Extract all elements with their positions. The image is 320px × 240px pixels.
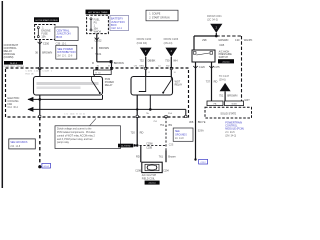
wire relay A common to bus H1 xyxy=(102,95,104,99)
svg-text:C2S: C2S xyxy=(169,144,174,146)
svg-text:GROUNDS: GROUNDS xyxy=(175,134,187,136)
fuse F2 FUEL PUMP 30A (Battery Junction Box, dashed) xyxy=(87,15,109,33)
CCRM module box (dashed) xyxy=(6,68,189,117)
A/C clutch field coil label xyxy=(142,174,157,180)
svg-text:2M 12-1 12-8: 2M 12-1 12-8 xyxy=(57,56,73,58)
ground ref box G104 (blue) xyxy=(42,163,51,168)
svg-text:DB/BK: DB/BK xyxy=(148,59,156,63)
svg-text:214 14-8: 214 14-8 xyxy=(10,146,20,148)
A/C high pressure switch label xyxy=(219,50,233,59)
svg-text:G104: G104 xyxy=(44,166,50,168)
svg-text:C25B: C25B xyxy=(146,148,152,150)
electric cooling fan label xyxy=(8,97,20,109)
from C206 label xyxy=(164,37,179,45)
black ref bar (bottom branch) xyxy=(118,144,133,148)
CCRM top edge pin labels xyxy=(97,66,170,68)
svg-text:BROWN: BROWN xyxy=(42,50,52,54)
wire switch right leg 737 RD (to PCM) xyxy=(206,62,221,101)
svg-text:BROWN: BROWN xyxy=(114,61,124,65)
svg-text:RD: RD xyxy=(166,66,170,68)
svg-text:368: 368 xyxy=(189,120,194,124)
svg-text:FROM C001: FROM C001 xyxy=(207,14,222,18)
svg-text:298: 298 xyxy=(202,38,207,42)
svg-text:GRY: GRY xyxy=(244,98,250,102)
wire fuse2 into pin block xyxy=(96,68,98,70)
svg-text:GRN/RD: GRN/RD xyxy=(218,38,228,42)
relay B body (WAC relay) xyxy=(131,77,173,96)
wire 36 BROWN (fuse F1 to CCRM) xyxy=(35,40,52,69)
wire (dashed) CCRM to ground splice xyxy=(38,117,41,168)
CCRM top edge pin squares xyxy=(39,67,173,69)
svg-text:12-7 B RD: 12-7 B RD xyxy=(121,146,131,148)
svg-text:C 1070 C 1041 C 1049 1: C 1070 C 1041 C 1049 1 xyxy=(25,71,52,73)
svg-text:SEE GROUNDS: SEE GROUNDS xyxy=(10,142,27,144)
from C001 label xyxy=(207,14,222,22)
powertrain control module label xyxy=(225,122,244,138)
off-page arrow 2 (down) xyxy=(165,48,177,57)
svg-text:C250: C250 xyxy=(43,41,50,45)
svg-text:pump relay.: pump relay. xyxy=(57,141,70,144)
wire from arrow 3 xyxy=(215,33,217,36)
svg-text:DISTRIBUTION: DISTRIBUTION xyxy=(57,50,75,54)
svg-text:21A: 21A xyxy=(168,112,172,115)
svg-text:(2N A4): (2N A4) xyxy=(164,41,173,45)
svg-text:S101: S101 xyxy=(95,52,102,56)
A/C high pressure switch box xyxy=(192,50,215,62)
off-page arrow 1 (down) xyxy=(140,48,152,57)
svg-text:RD: RD xyxy=(214,80,218,84)
wire 732 DB/LG (arrow 1 into CCRM) xyxy=(139,57,155,77)
svg-text:RD: RD xyxy=(136,155,140,159)
svg-text:(CCRM): (CCRM) xyxy=(4,55,14,59)
black ref bar (CCRM) xyxy=(4,61,23,65)
svg-text:730: 730 xyxy=(165,59,170,63)
see power distribution ref box xyxy=(56,45,77,59)
svg-text:FROM C230: FROM C230 xyxy=(137,37,152,41)
svg-text:BROWN: BROWN xyxy=(99,46,109,50)
CCRM interior connector smudge row xyxy=(25,71,52,76)
fuse F1 ENGINE FUSE (Central Junction Box, dashed) xyxy=(35,25,55,40)
svg-text:RELAY: RELAY xyxy=(105,84,113,87)
svg-text:(2C 34-2): (2C 34-2) xyxy=(207,17,218,21)
wire horizontal bus top right xyxy=(194,35,216,37)
CCRM top edge inner pin numbers xyxy=(148,72,177,74)
svg-text:Brown: Brown xyxy=(168,155,176,159)
svg-text:WH/PK: WH/PK xyxy=(244,38,253,42)
svg-text:24-01-5: 24-01-5 xyxy=(10,63,18,65)
svg-text:WHOA: WHOA xyxy=(94,31,102,34)
wire switch left leg (down to splice box) xyxy=(193,62,205,160)
note box (CCRM description) xyxy=(55,119,121,149)
battery junction box label xyxy=(110,16,129,31)
svg-text:SOLID STATE: SOLID STATE xyxy=(220,112,236,115)
wire R BROWN (fuse F2 down) xyxy=(91,34,109,62)
svg-text:C175: C175 xyxy=(214,66,221,69)
svg-text:24-01-5: 24-01-5 xyxy=(222,61,230,63)
svg-text:BOX: BOX xyxy=(56,35,62,39)
svg-text:2 START OR RUN: 2 START OR RUN xyxy=(149,16,170,19)
wire pin block to relay A xyxy=(93,75,95,77)
svg-text:HO4 1B: HO4 1B xyxy=(25,73,34,75)
see grounds ref box (right) xyxy=(173,128,193,141)
svg-text:(N42 D4): (N42 D4) xyxy=(137,41,148,45)
wire bus H2 to cooling fan xyxy=(27,107,185,117)
wire (dashed) bottom branch xyxy=(136,144,166,146)
svg-text:GRN: GRN xyxy=(139,66,144,68)
svg-text:UG: UG xyxy=(134,66,138,68)
off-page square terminal xyxy=(134,144,136,146)
svg-text:BN: BN xyxy=(169,123,173,127)
svg-text:C D 1041 B 10 A: C D 1041 B 10 A xyxy=(64,113,85,116)
svg-text:C1B: C1B xyxy=(219,43,224,47)
svg-text:HOT IN START OR RUN: HOT IN START OR RUN xyxy=(36,19,58,22)
svg-text:BROWN: BROWN xyxy=(227,94,237,98)
connector C102 xyxy=(94,38,102,43)
svg-text:(2M 34-2): (2M 34-2) xyxy=(225,135,236,138)
svg-text:BN/YE: BN/YE xyxy=(198,120,206,124)
svg-text:B 50: B 50 xyxy=(95,73,101,75)
legend note box xyxy=(146,10,178,21)
svg-text:737: 737 xyxy=(206,80,211,84)
svg-text:FIELD COIL: FIELD COIL xyxy=(142,177,156,180)
to C147 label xyxy=(219,75,230,82)
header bar HOT AT ALL TIMES xyxy=(86,10,111,15)
off-page arrow up (to C147) xyxy=(220,83,231,91)
CCRM bottom edge pin squares xyxy=(39,115,187,117)
svg-text:RD: RD xyxy=(140,131,144,135)
svg-text:RELAY: RELAY xyxy=(175,83,183,86)
svg-text:C126: C126 xyxy=(199,66,206,69)
wire bus H1 to cooling fan xyxy=(27,97,102,102)
svg-text:C112: C112 xyxy=(201,162,207,164)
svg-text:15A: 15A xyxy=(41,35,46,38)
wire branch into pin block xyxy=(111,68,113,70)
CCRM pin block xyxy=(94,70,112,75)
A/C clutch field coil component xyxy=(142,162,162,172)
splice end node xyxy=(194,158,196,160)
svg-text:FROM C206: FROM C206 xyxy=(164,37,179,41)
svg-text:529A: 529A xyxy=(198,129,204,133)
svg-text:C14 30-2: C14 30-2 xyxy=(8,106,19,109)
black ref bar (pressure switch) xyxy=(218,59,234,63)
PCM pin box 2 xyxy=(225,101,244,106)
svg-text:C25W: C25W xyxy=(146,143,153,145)
wire 761 BROWN (clutch right) xyxy=(159,150,177,162)
from C230 label xyxy=(137,37,152,45)
svg-text:732: 732 xyxy=(139,59,144,63)
svg-text:1 COUPE: 1 COUPE xyxy=(149,13,161,16)
svg-text:761: 761 xyxy=(159,155,164,159)
wire fuse1 into relay A xyxy=(39,68,41,77)
wire relay B output (clutch feed) xyxy=(136,95,138,117)
relay A body (PCM power relay) xyxy=(34,77,103,96)
off-page arrow 3 (down) xyxy=(210,24,222,33)
wire 298 GRN/RD (to pressure switch) xyxy=(194,36,229,50)
wire 730 WH (arrow 2 into CCRM) xyxy=(165,57,178,77)
wire relay B common to bus H2 xyxy=(149,95,151,109)
PCM power relay label xyxy=(105,78,114,87)
svg-text:WH: WH xyxy=(173,59,177,63)
central junction box label xyxy=(55,27,78,45)
connector C250 xyxy=(38,41,50,45)
PCM pin box 1 xyxy=(207,101,223,106)
wire 130 WH/PK (to PCM) xyxy=(235,36,252,101)
svg-text:2A 14-8: 2A 14-8 xyxy=(175,137,184,140)
wire relay A output down xyxy=(39,95,42,117)
WAC relay label xyxy=(175,80,183,86)
connector labels C25W C25B xyxy=(146,143,153,149)
wire (dashed) 751 to clutch right xyxy=(160,117,174,150)
wire 720 RD (relay B to clutch) xyxy=(130,117,143,162)
black ref bar (A/C clutch) xyxy=(145,181,160,185)
svg-text:C22 12-1: C22 12-1 xyxy=(111,27,122,30)
wire 368 BN/YE labels (switch left leg) xyxy=(189,120,206,133)
svg-text:C2B 12-1: C2B 12-1 xyxy=(56,42,67,45)
PCM module box (dashed) xyxy=(205,107,252,118)
svg-text:720: 720 xyxy=(130,131,135,135)
svg-text:C-102: C-102 xyxy=(94,38,102,42)
svg-text:C19B: C19B xyxy=(135,171,141,173)
svg-text:C194: C194 xyxy=(163,171,169,173)
svg-text:130: 130 xyxy=(235,38,240,42)
splice S101 branch wire xyxy=(92,60,124,68)
svg-text:505B: 505B xyxy=(231,104,237,106)
CCRM label xyxy=(4,43,19,59)
svg-text:SEE: SEE xyxy=(175,131,180,133)
svg-text:751: 751 xyxy=(219,94,224,98)
svg-text:R: R xyxy=(91,46,93,50)
see grounds ref box xyxy=(9,139,36,149)
svg-text:(29-6): (29-6) xyxy=(219,78,226,81)
svg-text:HOT AT ALL TIMES: HOT AT ALL TIMES xyxy=(88,11,108,14)
wire 761 BROWN (PCM to arrow) xyxy=(219,91,237,101)
svg-text:24-01-5: 24-01-5 xyxy=(149,183,157,185)
svg-text:R: R xyxy=(92,61,94,65)
header bar HOT IN START OR RUN xyxy=(34,17,59,22)
svg-text:SWITCH: SWITCH xyxy=(219,56,229,59)
node junction top right xyxy=(215,35,218,38)
splice ref box S112 (blue) xyxy=(199,159,208,164)
page left border xyxy=(1,1,3,188)
svg-text:751: 751 xyxy=(160,123,165,127)
